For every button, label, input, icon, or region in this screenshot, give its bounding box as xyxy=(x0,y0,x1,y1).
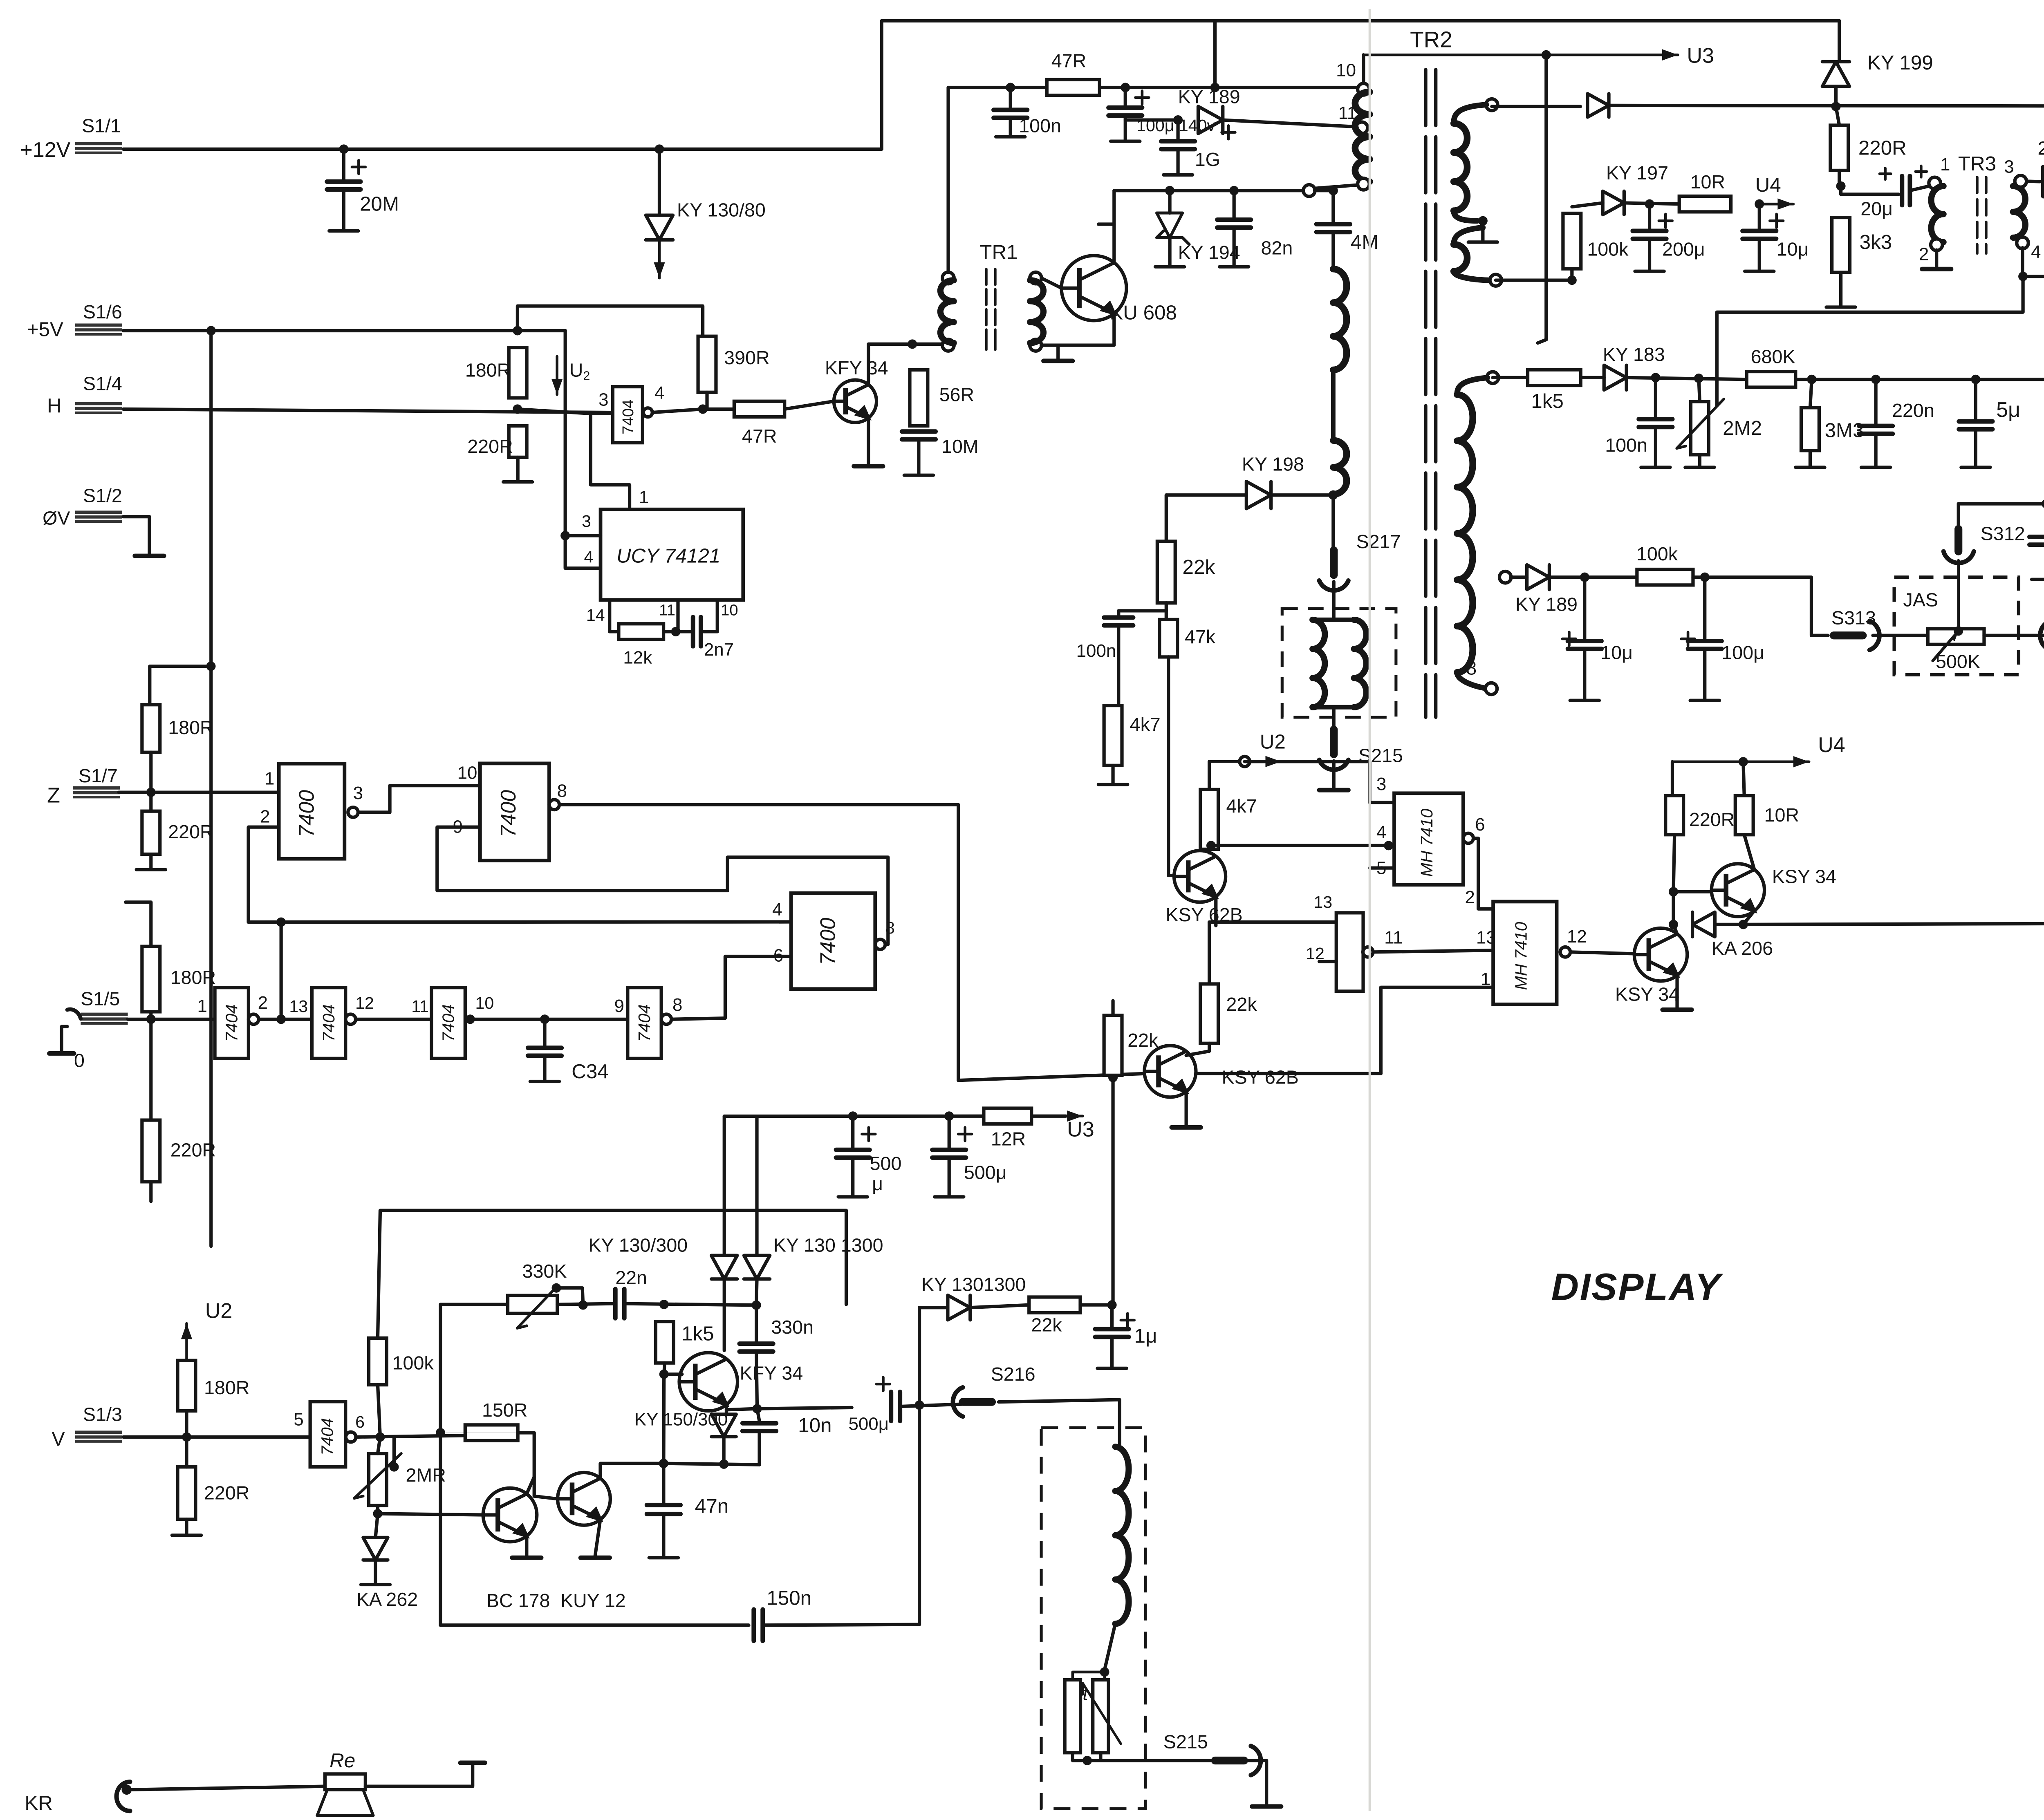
svg-text:330K: 330K xyxy=(522,1260,567,1282)
svg-text:KY 194: KY 194 xyxy=(1178,242,1240,263)
transistor KSY 34 (upper) xyxy=(1712,864,1764,916)
junction 47n2 node xyxy=(659,1459,668,1468)
svg-text:S215: S215 xyxy=(1163,1731,1208,1752)
svg-text:1G: 1G xyxy=(1195,149,1220,170)
winding TR2 sec tap lead xyxy=(1454,211,1477,221)
wire 22k2 stem xyxy=(1209,922,1210,984)
ground KFY34 #1 xyxy=(854,466,883,467)
wire 2MR wiper tap xyxy=(394,1437,395,1467)
wire 22k3 down xyxy=(1112,1077,1114,1305)
junction KFY34#2 base xyxy=(659,1370,669,1379)
wire KY a vert xyxy=(724,1116,725,1256)
junction 330K out xyxy=(578,1300,588,1310)
svg-text:KY 189: KY 189 xyxy=(1178,86,1240,107)
junction 100k3/V row xyxy=(375,1432,385,1442)
junction U3 row xyxy=(1542,50,1551,60)
wire 47R row xyxy=(948,87,1047,88)
wire 330K row west xyxy=(441,1304,508,1305)
diode KY 197 xyxy=(1603,191,1624,215)
bubble 7400a out xyxy=(348,807,358,817)
wire 180R2 to Z xyxy=(150,752,152,792)
capacitor 100n #2 xyxy=(1104,618,1133,625)
wire coil to S217 xyxy=(1333,495,1334,556)
svg-text:10R: 10R xyxy=(1764,804,1800,826)
wire KY a to collector xyxy=(724,1279,725,1350)
svg-text:Z: Z xyxy=(47,784,60,807)
wire 20M stem xyxy=(343,149,344,179)
svg-text:10n: 10n xyxy=(798,1414,831,1437)
wire lin coil mid xyxy=(1332,370,1334,441)
resistor 4k7 #2 xyxy=(1200,790,1218,849)
junction C34 xyxy=(540,1014,549,1024)
capacitor 1u xyxy=(1095,1329,1129,1337)
svg-text:KY 199: KY 199 xyxy=(1867,51,1933,74)
hook S1/5 xyxy=(67,1009,81,1019)
terminal TR3 pin2 xyxy=(1931,239,1943,251)
svg-text:KY 130/300: KY 130/300 xyxy=(588,1235,688,1256)
svg-text:KY 198: KY 198 xyxy=(1242,454,1304,475)
diode KY 130/1300 #4 xyxy=(948,1295,970,1320)
wire emitter row xyxy=(726,1408,852,1410)
plug S313 xyxy=(1834,634,1863,637)
svg-text:BC 178: BC 178 xyxy=(486,1590,550,1611)
svg-text:C34: C34 xyxy=(572,1060,609,1083)
wire UCY pin 3 xyxy=(565,535,601,536)
junction V divider xyxy=(182,1432,191,1442)
wire U3 drop xyxy=(1538,55,1546,343)
svg-text:220R: 220R xyxy=(204,1482,249,1504)
wire 220R4b stub xyxy=(186,1437,187,1467)
svg-text:220R: 220R xyxy=(467,436,513,457)
wire t bottom join xyxy=(1073,1753,1115,1760)
trimmer 2M2 xyxy=(1691,402,1709,455)
thermistor arrow xyxy=(1083,1683,1121,1744)
wire 7400b pin9 route xyxy=(437,827,888,945)
svg-text:TR3: TR3 xyxy=(1958,152,1996,175)
svg-text:4: 4 xyxy=(1376,822,1386,842)
svg-text:Re: Re xyxy=(329,1749,355,1772)
svg-text:7404: 7404 xyxy=(619,399,637,434)
wire BC178 emitter xyxy=(526,1536,527,1556)
svg-text:680K: 680K xyxy=(1751,346,1795,367)
wire 220R4 to base node xyxy=(1673,835,1674,892)
winding TR2 sec upper coil xyxy=(1454,123,1467,211)
svg-text:220R: 220R xyxy=(1689,809,1735,830)
svg-text:100k: 100k xyxy=(1636,543,1678,564)
wire 7400#2 out drop xyxy=(557,805,958,1080)
diode KY 130/1300 #2 xyxy=(744,1256,770,1279)
svg-text:2: 2 xyxy=(1465,887,1475,907)
dashed box horizontal yoke xyxy=(1282,609,1396,717)
svg-text:7404: 7404 xyxy=(635,1004,654,1041)
bubble 7400b out xyxy=(549,799,559,810)
IC MH7410 gate B xyxy=(1493,902,1557,1004)
svg-text:12k: 12k xyxy=(623,647,652,667)
resistor 220R (U4 feed) xyxy=(1830,125,1848,170)
svg-text:KFY 34: KFY 34 xyxy=(825,357,888,378)
svg-text:7404: 7404 xyxy=(318,1418,336,1455)
svg-text:180R: 180R xyxy=(170,967,216,988)
resistor 47R (snubber) xyxy=(1047,80,1100,95)
coil vertical yoke xyxy=(1115,1447,1129,1624)
wire 200u stem xyxy=(1649,204,1650,228)
wire 500 stem xyxy=(852,1116,854,1148)
wire 330K feedback vertical xyxy=(440,1305,441,1625)
wire 47R row b xyxy=(1100,87,1363,88)
transistor KSY 62B #1 xyxy=(1174,851,1226,902)
svg-text:KFY 34: KFY 34 xyxy=(740,1362,803,1383)
svg-text:100k: 100k xyxy=(392,1352,434,1374)
ground KA262 xyxy=(361,1560,390,1585)
trimmer 2M2 arrow xyxy=(1677,399,1724,448)
wire wiper route xyxy=(1717,276,2023,405)
junction 3M3 xyxy=(1807,375,1816,384)
ground 500u #2 xyxy=(935,1157,964,1197)
svg-text:47k: 47k xyxy=(1185,626,1216,647)
svg-text:82n: 82n xyxy=(1261,237,1293,259)
wire 100n2 to 4k7 xyxy=(1118,625,1119,705)
svg-text:3k3: 3k3 xyxy=(1860,231,1892,253)
capacitor 100n #3 xyxy=(1639,419,1672,427)
svg-text:10R: 10R xyxy=(1690,171,1726,193)
plug S215 #2 xyxy=(1215,1759,1244,1762)
wire relay east xyxy=(365,1763,473,1786)
wire yoke join bottom xyxy=(1313,706,1354,708)
resistor 10R #1 xyxy=(1679,196,1731,212)
terminal TR2 sec top xyxy=(1486,99,1498,111)
junction 500u cap xyxy=(944,1111,954,1121)
wire 82n stem xyxy=(1233,190,1235,217)
wire TR1 tl up to 47R row xyxy=(948,87,949,272)
ground KY194 xyxy=(1155,237,1184,266)
svg-text:2M2: 2M2 xyxy=(1723,417,1762,439)
bubble 7404#4 out xyxy=(661,1014,672,1024)
svg-text:S1/7: S1/7 xyxy=(78,765,118,786)
gate 7404 #5 xyxy=(310,1401,346,1467)
svg-text:3: 3 xyxy=(353,783,363,803)
svg-text:10: 10 xyxy=(457,763,477,783)
svg-text:V: V xyxy=(52,1428,65,1450)
wire 220R3 bottom xyxy=(150,1182,152,1201)
junction KA206/KSY34 xyxy=(1739,920,1748,929)
wire KY130/80 anode xyxy=(659,149,660,215)
plus 20M xyxy=(352,160,365,174)
wire +12V rail xyxy=(123,148,882,150)
capacitor 1G xyxy=(1161,141,1195,149)
wire KY194/82n rail xyxy=(1114,190,1309,191)
svg-text:220R: 220R xyxy=(170,1139,216,1161)
junction 4n7 tap xyxy=(2042,499,2044,508)
junction 1k5#2 top xyxy=(659,1300,669,1309)
wire 220R3 stub xyxy=(150,1019,152,1120)
junction wiper route xyxy=(2018,272,2028,281)
wire 10u2 stem xyxy=(1584,577,1585,639)
wire S216 to yoke2 xyxy=(999,1400,1120,1447)
ground 10u #2 xyxy=(1570,649,1599,701)
svg-text:1k5: 1k5 xyxy=(1531,390,1564,412)
wire 22k1 top xyxy=(1165,495,1167,541)
junction 22k3/base net xyxy=(1108,1073,1118,1082)
ground 4n7 grid xyxy=(2032,545,2044,580)
bubble 7410a out xyxy=(1463,833,1473,844)
wire KY198 row xyxy=(1166,495,1246,496)
junction 220R/3k3/20u xyxy=(1836,181,1846,191)
svg-text:20μ: 20μ xyxy=(1860,198,1893,219)
svg-text:12: 12 xyxy=(355,994,374,1012)
svg-text:JAS: JAS xyxy=(1903,589,1938,610)
junction 100u top xyxy=(1121,83,1130,92)
page fold line xyxy=(1369,9,1370,1811)
svg-text:4k7: 4k7 xyxy=(1226,795,1257,817)
plus 100u 140V xyxy=(1135,91,1149,104)
wire 220R to node xyxy=(1839,170,1840,186)
plus 10u #1 xyxy=(1770,214,1783,228)
svg-text:S217: S217 xyxy=(1356,531,1401,552)
svg-text:11: 11 xyxy=(659,601,675,619)
capacitor 500u #1 xyxy=(836,1150,870,1157)
wire 22k1 bottom xyxy=(1165,603,1167,620)
ground 82n xyxy=(1219,228,1248,267)
svg-text:3: 3 xyxy=(598,390,608,410)
terminal TR3 pin1 xyxy=(1929,177,1941,189)
terminal TR2 pin 8 xyxy=(1486,683,1497,695)
ground 10M xyxy=(904,439,933,475)
gate 7404 #4 xyxy=(628,987,661,1059)
wire U2 node vertical xyxy=(565,331,566,535)
wire 330n bottom xyxy=(756,1352,757,1408)
terminal TR2 sec bottom xyxy=(1490,274,1502,286)
junction KSY34#1 base xyxy=(1669,887,1678,896)
ground 100u #2 xyxy=(1690,649,1719,701)
wire 47R to KFY34 base xyxy=(784,401,834,409)
resistor 1k5 (KY183) xyxy=(1528,370,1581,385)
junction KY198 node xyxy=(1329,490,1338,500)
wire pin4 row xyxy=(1211,845,1394,846)
diode KY 130/80 xyxy=(646,215,673,240)
core TR1 xyxy=(986,269,987,349)
svg-text:8: 8 xyxy=(885,918,895,937)
wire +5V rail xyxy=(123,330,565,331)
capacitor 500u #3 xyxy=(891,1392,900,1421)
svg-text:100μ: 100μ xyxy=(1721,642,1764,663)
bubble 7404#3 out dot xyxy=(466,1014,475,1024)
svg-text:1: 1 xyxy=(264,768,274,788)
wire 7404 3-4 xyxy=(470,1019,628,1020)
wire 2MR top stub xyxy=(378,1437,380,1453)
connector S1/4 xyxy=(75,401,122,415)
winding TR2 sec lower lead xyxy=(1454,228,1483,244)
svg-text:KA 262: KA 262 xyxy=(356,1589,418,1610)
junction 500K wiper xyxy=(1954,626,1963,636)
wire KY189 to pin11 xyxy=(1223,120,1355,127)
wire 100k3 top route xyxy=(378,1211,846,1338)
wire 7404a pin3 to UCY pin1 xyxy=(591,414,630,509)
dashed box vertical yoke xyxy=(1041,1428,1145,1809)
wire S313 to JAS xyxy=(1873,635,1927,636)
ground 220R #2 xyxy=(137,854,166,870)
ground 100u 140V xyxy=(1111,116,1140,141)
svg-text:1: 1 xyxy=(197,996,207,1016)
junction 82n xyxy=(1229,186,1239,195)
wire 500u2 stem xyxy=(948,1116,950,1148)
terminal TR2 hv tap xyxy=(1499,571,1511,583)
inductor horizontal linearity lower xyxy=(1333,441,1347,495)
potentiometer 500K xyxy=(1928,629,1984,644)
junction emitter/330n/10n xyxy=(753,1404,762,1413)
arrow U2 #2 xyxy=(186,1323,187,1360)
wire 47n2 stem xyxy=(663,1464,664,1503)
wire KFY34#1 emitter xyxy=(868,418,869,464)
wire long pin4 row xyxy=(249,921,791,923)
svg-text:7404: 7404 xyxy=(222,1004,241,1041)
wire rail to 4M xyxy=(1315,190,1333,191)
resistor 220R #4 xyxy=(1665,796,1683,835)
svg-text:7400: 7400 xyxy=(295,790,319,837)
svg-text:47R: 47R xyxy=(742,425,777,447)
svg-text:S1/1: S1/1 xyxy=(82,115,121,137)
svg-text:KY 130/80: KY 130/80 xyxy=(677,199,766,220)
wire 1k5#2 bottom xyxy=(664,1363,665,1375)
wire winding2 to KY197 row xyxy=(1492,106,1580,107)
wire KY197 to 10R xyxy=(1624,203,1679,204)
svg-text:KSY 62B: KSY 62B xyxy=(1222,1066,1299,1088)
svg-text:3: 3 xyxy=(2004,157,2014,177)
wire base node down xyxy=(663,1374,665,1463)
gate 7404 #3 xyxy=(432,987,465,1059)
wire hv-top to 1k5 row xyxy=(1493,377,1528,378)
svg-text:12: 12 xyxy=(1567,927,1587,947)
resistor 47R (base) xyxy=(734,401,784,417)
svg-text:150n: 150n xyxy=(766,1587,811,1609)
winding TR3 left xyxy=(1931,186,1943,242)
capacitor 10M xyxy=(902,432,935,439)
ground 220R #4b xyxy=(172,1519,201,1535)
plus TR3 pin1 xyxy=(1916,166,1927,177)
junction 1u node xyxy=(1107,1300,1117,1310)
terminal TR1 bottom-right xyxy=(1030,339,1042,351)
wire winding2-bottom row xyxy=(1496,280,1572,281)
wire S215 to ground xyxy=(1333,761,1334,788)
junction 100n3 xyxy=(1651,373,1660,382)
wire 100u stem xyxy=(1125,87,1126,105)
junction 1G/KY189 xyxy=(1173,115,1183,125)
resistor 220R #3 xyxy=(142,1120,160,1182)
wire 0 stub xyxy=(62,1027,67,1051)
wire 100k2 east xyxy=(1693,577,1828,636)
wire 4k7 row xyxy=(1959,503,2044,504)
IC 7400 gate 3 xyxy=(791,893,875,989)
junction 7404 row branch xyxy=(276,1014,286,1024)
junction TR2 sec tap xyxy=(1478,216,1488,226)
wire KY194 stem xyxy=(1169,190,1170,213)
svg-text:+5V: +5V xyxy=(27,318,63,341)
wire 7410b out to KSY34 base xyxy=(1570,952,1634,954)
terminal TR1 bottom-left xyxy=(942,339,954,351)
junction V row crossing xyxy=(436,1428,445,1437)
svg-text:KSY 34: KSY 34 xyxy=(1772,866,1836,887)
junction divider S1/5 xyxy=(146,1014,156,1024)
transistor KFY34 #1 xyxy=(834,380,876,423)
ground KSY34 lower xyxy=(1663,1009,1692,1011)
wire gate3 out to 7410b xyxy=(1373,950,1493,952)
svg-text:S1/6: S1/6 xyxy=(83,301,122,322)
resistor 1k5 #2 xyxy=(656,1321,674,1363)
svg-text:5: 5 xyxy=(294,1410,303,1430)
resistor 180R (H divider top) xyxy=(509,347,527,398)
terminal TR2 lower-left pin xyxy=(1303,185,1315,197)
wire base net xyxy=(958,1074,1144,1080)
wire yoke split xyxy=(1313,619,1354,620)
connector S1/5 xyxy=(81,1012,128,1025)
svg-text:1μ: 1μ xyxy=(1134,1325,1157,1347)
wire V row to vertical xyxy=(441,1433,518,1433)
wire 150n east xyxy=(763,1625,919,1625)
wire to 47R xyxy=(703,408,734,410)
wire 7404#5 out row xyxy=(356,1435,465,1437)
diode KY 198 xyxy=(1246,481,1271,508)
trimmer 2MR xyxy=(369,1453,387,1505)
ground BC178 xyxy=(512,1557,541,1558)
wire hv tap to KY189 xyxy=(1511,577,1527,578)
ground 1G xyxy=(1163,149,1192,175)
svg-text:13: 13 xyxy=(289,997,308,1016)
resistor 390R xyxy=(698,336,716,392)
wire 4k7#2 to collector xyxy=(1209,849,1210,853)
svg-text:UCY 74121: UCY 74121 xyxy=(616,545,720,567)
wire KY199#1 to rail xyxy=(1836,86,1837,106)
svg-text:22k: 22k xyxy=(1031,1314,1062,1335)
capacitor 150n xyxy=(754,1610,763,1641)
capacitor 22n xyxy=(615,1289,624,1318)
ground 0V xyxy=(135,555,164,557)
svg-text:KR: KR xyxy=(25,1792,53,1814)
ground 220R #1 xyxy=(503,457,532,482)
svg-text:S312: S312 xyxy=(1981,523,2025,544)
wire top drop to 47R row xyxy=(1215,21,1216,87)
core TR2 xyxy=(1425,69,1426,717)
wire H rail xyxy=(123,409,613,412)
wire row to 22n xyxy=(557,1304,613,1305)
capacitor 47n #2 xyxy=(647,1505,680,1514)
svg-text:2n7: 2n7 xyxy=(704,640,734,660)
wire KFY34#1 collector xyxy=(868,344,946,385)
ground 4k7 #1 xyxy=(1098,766,1127,785)
junction +12V/KY130-80 xyxy=(654,144,664,154)
transistor KUY 12 xyxy=(558,1473,610,1525)
trimmer 330K arrow xyxy=(517,1287,556,1328)
wire branch to 100n2 xyxy=(1118,611,1166,615)
wire S312 drop xyxy=(1958,504,1959,529)
svg-text:22k: 22k xyxy=(1226,994,1257,1015)
ground 220n xyxy=(1861,434,1890,467)
winding TR1 secondary xyxy=(1030,280,1044,343)
svg-text:22k: 22k xyxy=(1183,556,1215,578)
svg-text:2: 2 xyxy=(1919,244,1929,264)
svg-text:MH 7410: MH 7410 xyxy=(1511,922,1530,990)
wire UCY pin11 xyxy=(677,600,679,632)
svg-text:4: 4 xyxy=(584,548,593,566)
wire 12k to 2n7 xyxy=(663,631,693,632)
diode KY 189 #1 xyxy=(1198,106,1223,133)
svg-text:180R: 180R xyxy=(204,1377,249,1398)
junction pin11 node xyxy=(671,627,680,636)
junction KY199#1 bottom xyxy=(1831,102,1840,111)
terminal TR3 pin4 xyxy=(2017,237,2028,249)
junction 56R top xyxy=(908,339,917,349)
diode KY 130/300 #3 xyxy=(711,1414,736,1437)
arrow U2 sense xyxy=(556,356,557,394)
wire 150R out corner xyxy=(518,1433,558,1499)
